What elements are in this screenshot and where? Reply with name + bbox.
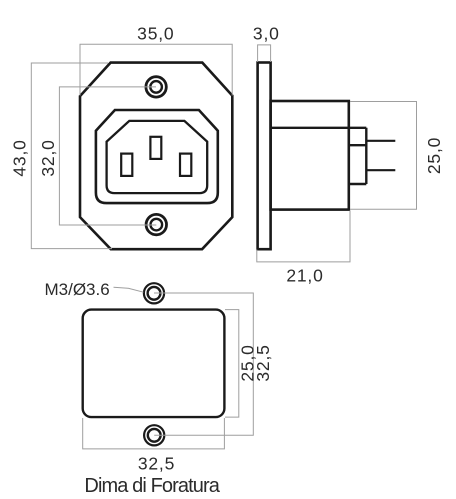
dim 43,0 line and extensions bbox=[31, 63, 112, 249]
svg-text:32,5: 32,5 bbox=[253, 344, 273, 381]
svg-text:35,0: 35,0 bbox=[137, 24, 174, 44]
dim 32,5 template bottom line and extensions bbox=[83, 418, 225, 449]
terminal pin upper bbox=[366, 140, 395, 142]
front flange octagon outline bbox=[80, 63, 232, 250]
live pin slot (left) bbox=[121, 154, 132, 176]
template top hole outer bbox=[144, 283, 164, 303]
bottom screw hole inner bbox=[151, 219, 163, 231]
terminal pin lower bbox=[366, 169, 395, 171]
dim 25,0 template line and extensions bbox=[225, 310, 239, 418]
svg-text:25,0: 25,0 bbox=[424, 137, 444, 174]
leader line M3 bbox=[114, 287, 144, 292]
socket cavity line bbox=[271, 127, 367, 129]
top screw hole outer bbox=[146, 77, 166, 97]
svg-text:3,0: 3,0 bbox=[253, 24, 280, 44]
earth pin slot (center) bbox=[150, 137, 161, 159]
svg-text:M3/Ø3.6: M3/Ø3.6 bbox=[45, 280, 110, 299]
dim 32,0 line and extensions bbox=[59, 87, 156, 225]
dim 3,0 extensions bbox=[258, 45, 271, 62]
template bottom hole inner bbox=[148, 429, 161, 442]
svg-text:21,0: 21,0 bbox=[286, 266, 323, 286]
rear terminal block bbox=[349, 128, 367, 184]
svg-text:32,0: 32,0 bbox=[38, 139, 58, 176]
dim 21,0 line and extensions bbox=[257, 211, 350, 262]
svg-text:43,0: 43,0 bbox=[10, 139, 30, 176]
svg-text:32,5: 32,5 bbox=[138, 454, 175, 474]
svg-text:Dima di Foratura: Dima di Foratura bbox=[84, 475, 220, 497]
dimension lines front view bbox=[31, 44, 232, 248]
top screw hole inner bbox=[150, 81, 162, 93]
socket recess outer outline bbox=[96, 110, 218, 203]
socket recess inner outline bbox=[107, 121, 208, 193]
connector body bbox=[271, 101, 349, 210]
dim 35,0 line and extensions bbox=[80, 44, 232, 95]
template top hole inner bbox=[148, 287, 161, 300]
bottom screw hole outer bbox=[146, 214, 166, 234]
neutral pin slot (right) bbox=[180, 154, 191, 176]
dim 32,5 template vertical line and extensions bbox=[154, 293, 253, 435]
side flange plate bbox=[258, 63, 271, 250]
dim 25,0 line and extensions bbox=[350, 102, 417, 210]
template bottom hole outer bbox=[144, 425, 164, 445]
template cutout rounded rectangle bbox=[83, 310, 225, 418]
